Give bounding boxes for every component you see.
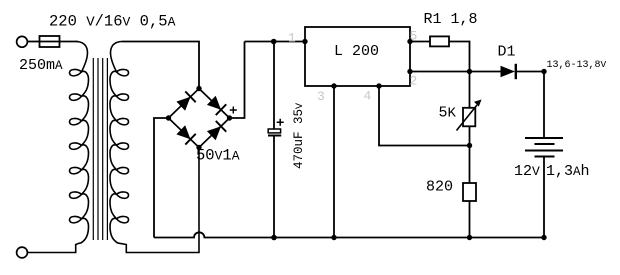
wire pin4 down right [379, 86, 470, 146]
svg-text:L 200: L 200 [334, 43, 379, 60]
wire pin5 to R1 [410, 41, 430, 43]
potentiometer 5K body [457, 72, 482, 146]
node pin2 junction [467, 69, 472, 74]
wire secondary top to bridge [122, 42, 199, 89]
bridge diode D-left-bottom [176, 124, 196, 144]
ground rail with hop [154, 232, 544, 237]
svg-text:470uF 35V: 470uF 35V [292, 103, 306, 169]
top dc rail [245, 41, 306, 43]
node cap top [271, 39, 277, 45]
svg-text:D1: D1 [498, 44, 516, 61]
resistor R1 [430, 36, 449, 46]
bridge diode D-left-top [176, 91, 196, 111]
svg-text:4: 4 [364, 89, 372, 104]
svg-text:220 V/16V 0,5A: 220 V/16V 0,5A [49, 13, 176, 31]
wire [60, 41, 78, 43]
wire pin3 down [333, 86, 335, 238]
transformer primary winding [27, 42, 88, 253]
node 820 rail [467, 235, 472, 240]
node cap bottom [271, 235, 277, 241]
svg-text:3: 3 [317, 89, 325, 104]
bridge vertex dots [166, 86, 232, 150]
svg-text:250mA: 250mA [19, 57, 63, 74]
svg-text:1,3Ah: 1,3Ah [546, 163, 590, 180]
svg-text:820: 820 [426, 179, 453, 196]
transformer secondary winding [110, 42, 199, 253]
plus sign bridge output [230, 107, 237, 114]
svg-text:2: 2 [410, 74, 418, 89]
svg-text:12V: 12V [514, 163, 540, 180]
terminal input bottom [17, 247, 28, 258]
svg-text:13,6-13,8V: 13,6-13,8V [547, 59, 607, 71]
resistor 820 [463, 146, 476, 238]
node battery rail [541, 235, 546, 240]
battery B1 12V [525, 72, 563, 238]
terminal input top [17, 36, 28, 47]
diode D1 [501, 64, 545, 79]
wire pin2 row [410, 71, 501, 73]
wire bridge minus to ground rail [154, 118, 169, 238]
svg-text:5: 5 [410, 29, 418, 44]
pin dots L200 [302, 39, 412, 89]
bridge diode D-bottom-right [206, 121, 226, 141]
node D1 battery [541, 69, 546, 74]
bridge rectifier diamond [169, 89, 230, 148]
svg-text:R1 1,8: R1 1,8 [424, 11, 478, 28]
svg-text:1: 1 [288, 31, 296, 46]
wire R1 to junction riser [449, 42, 470, 72]
wire [27, 41, 39, 43]
node pin4 junction [467, 143, 472, 148]
transformer core [93, 58, 107, 240]
bridge diode D-top-right [206, 95, 226, 115]
node pin3 rail [331, 235, 336, 240]
svg-text:50V1A: 50V1A [196, 147, 240, 165]
wire bridge plus riser [230, 42, 245, 119]
capacitor C1 470uF [268, 42, 284, 238]
regulator U1 L200 box [305, 27, 410, 86]
fuse F1 250mA [40, 36, 60, 47]
svg-text:5K: 5K [439, 105, 457, 122]
